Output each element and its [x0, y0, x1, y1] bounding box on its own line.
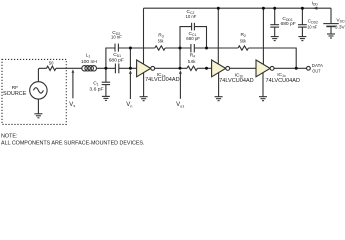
wire: IC1b output to IC1c input: [230, 67, 256, 69]
capacitor CC1 680pF (series, feedback row): [191, 44, 194, 52]
svg-text:56k: 56k: [158, 39, 164, 45]
svg-text:680 pF: 680 pF: [186, 36, 200, 42]
junction: IC1a input: [129, 67, 132, 70]
svg-text:NOTE:: NOTE:: [1, 133, 17, 139]
junction: rail IC1c: [262, 7, 265, 10]
junction: CC1/CC2/R2: [205, 47, 208, 50]
svg-text:74LVCU04AD: 74LVCU04AD: [219, 78, 254, 84]
wire: IC1b power pin: [217, 8, 219, 66]
VDD supply rail: [144, 7, 332, 9]
ground (CDD1): [271, 37, 279, 41]
node Vo1 measurement arrow: [179, 70, 182, 99]
svg-text:IDD: IDD: [312, 0, 319, 6]
wire: IC1c output to DATA OUT terminal: [274, 67, 306, 69]
wire: CC2 branch box: [180, 27, 207, 48]
svg-text:680 pF: 680 pF: [109, 58, 124, 64]
ground (IC1c): [259, 73, 267, 101]
wire: R2 to IC1c output node: [248, 48, 296, 68]
svg-text:ALL COMPONENTS ARE SURFACE-MOU: ALL COMPONENTS ARE SURFACE-MOUNTED DEVIC…: [1, 140, 145, 146]
svg-text:10 nF: 10 nF: [111, 35, 122, 41]
resistor R2 56k: [238, 46, 248, 50]
svg-text:SOURCE: SOURCE: [3, 91, 27, 97]
wire: CD1 to IC1a input: [119, 67, 137, 69]
junction: rail CDD1: [273, 7, 276, 10]
ground (IC1b): [215, 73, 223, 101]
svg-text:L1: L1: [86, 53, 91, 59]
wire: rail corner to VDD source: [330, 8, 332, 24]
svg-text:VDD: VDD: [336, 18, 345, 24]
ground (IC1a): [140, 73, 148, 101]
svg-text:50: 50: [49, 61, 54, 67]
wire: IC1a power pin: [143, 8, 145, 66]
junction: rail IC1b: [217, 7, 220, 10]
resistor 50 (source impedance): [47, 66, 56, 70]
wire: CDD2 stub: [301, 8, 303, 25]
svg-text:Vs: Vs: [69, 102, 75, 108]
svg-text:3.6 pF: 3.6 pF: [89, 87, 103, 93]
svg-text:Vn: Vn: [126, 102, 132, 108]
junction: R3/CC1/CC2: [179, 47, 182, 50]
inverter IC1b triangle: [212, 60, 226, 77]
junction: L1/C1/CD1/CD2 node: [104, 67, 107, 70]
resistor R3 56k: [155, 46, 165, 50]
svg-text:R3: R3: [158, 32, 164, 38]
junction: IC1c output node: [295, 67, 298, 70]
resistor R4 5.6k: [187, 66, 197, 70]
RF source circle: [30, 82, 47, 99]
battery VDD 3.3V: [323, 24, 338, 34]
inverter IC1c triangle: [256, 60, 270, 77]
wire: CD2 to IC1a input node: [118, 48, 130, 68]
svg-text:5.6k: 5.6k: [188, 59, 196, 65]
svg-text:100 nH: 100 nH: [81, 59, 97, 65]
capacitor CDD1 680pF (decoupling): [270, 25, 279, 37]
wire: 50-ohm to L1: [56, 67, 82, 69]
junction: rail CDD2: [301, 7, 304, 10]
IDD current arrow: [312, 7, 317, 10]
ground (CDD2): [298, 37, 306, 41]
wire: CC1 row: [180, 47, 207, 49]
inductor L1 100nH: [82, 66, 97, 71]
svg-text:Vo1: Vo1: [176, 102, 184, 108]
wire: L1 to node A: [97, 67, 116, 69]
note text: [1, 133, 145, 146]
wire: IC1c power pin: [262, 8, 264, 66]
inverter IC1b bubble: [226, 66, 230, 70]
wire: R2 hysteresis feedback row: [207, 47, 239, 49]
inverter IC1a bubble: [151, 66, 155, 70]
svg-text:CD1: CD1: [113, 52, 121, 58]
inverter IC1c bubble: [270, 66, 274, 70]
capacitor CC2 10nF (parallel branch): [192, 23, 195, 31]
dashed source box: [2, 59, 66, 124]
svg-text:74LVCU04AD: 74LVCU04AD: [266, 78, 301, 84]
junction: IC1a output node: [179, 67, 182, 70]
ground (VDD source): [327, 34, 335, 38]
wire: RF source to ground: [37, 99, 39, 114]
svg-text:DATA: DATA: [312, 63, 324, 69]
capacitor CD1 680pF (series, main row): [115, 64, 118, 74]
svg-text:10 nF: 10 nF: [307, 24, 317, 30]
junction: CD2/R3: [129, 47, 132, 50]
svg-text:56k: 56k: [240, 39, 246, 45]
wire: CDD1 stub: [274, 8, 276, 25]
svg-text:CDD2: CDD2: [308, 18, 318, 24]
inverter IC1a triangle: [137, 60, 151, 77]
wire: R3 to IC1a output node: [165, 48, 180, 68]
svg-text:680 pF: 680 pF: [281, 21, 296, 27]
wire: R4 to IC1b input: [197, 67, 211, 69]
wire: IC1a output row: [155, 67, 187, 69]
svg-text:10 nF: 10 nF: [186, 14, 197, 20]
svg-text:C1: C1: [93, 80, 99, 86]
ground (RF source): [34, 114, 42, 118]
capacitor CDD2 10nF (decoupling): [298, 25, 307, 37]
junction: IC1b input: [205, 67, 208, 70]
DATA OUT terminal: [307, 66, 311, 70]
ground (C1): [102, 96, 110, 100]
node Vn measurement arrow: [129, 70, 132, 99]
capacitor CD2 10nF (parallel branch): [115, 44, 118, 52]
wire: source top to 50-ohm: [38, 68, 46, 81]
svg-text:OUT: OUT: [312, 68, 320, 74]
svg-text:3.3V: 3.3V: [335, 24, 345, 30]
node Vs measurement arrow: [72, 69, 75, 98]
wire: R3 feedback row left: [130, 47, 154, 49]
wire: CD2 branch up from node A: [106, 48, 115, 68]
svg-text:R2: R2: [241, 32, 247, 38]
svg-text:R4: R4: [190, 52, 196, 58]
svg-text:74LVCU04AD: 74LVCU04AD: [145, 77, 180, 83]
capacitor C1 3.6pF (tank, to ground): [102, 68, 110, 96]
